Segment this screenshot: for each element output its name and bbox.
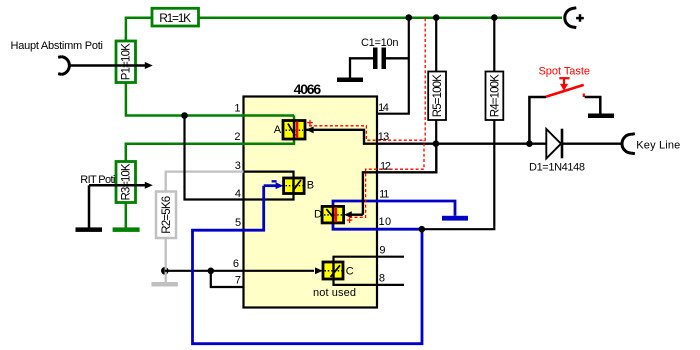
wire pin1 into switch A top (green)	[293, 116, 296, 122]
switch A (closed, red)	[283, 121, 305, 140]
label pin 8	[379, 273, 385, 285]
wire switch D input arrow	[344, 211, 363, 218]
svg-text:Key Line: Key Line	[636, 139, 680, 151]
wire R2 bottom (gray)	[165, 238, 167, 283]
label Haupt Abstimm Poti	[11, 40, 104, 52]
node pin10/R4 junction	[419, 226, 426, 233]
wire switch B input arrow (blue)	[264, 182, 284, 189]
wire pin 5 (blue)	[193, 186, 423, 344]
svg-text:Spot Taste: Spot Taste	[539, 66, 591, 78]
node junction pin4/pin1	[181, 112, 188, 119]
wire RIT wiper to ground	[88, 185, 91, 227]
label pin 6	[233, 258, 239, 270]
resistor R5	[428, 72, 446, 121]
wire R2 top to pin 3 (gray)	[166, 172, 244, 192]
wire R5 bottom	[435, 120, 437, 144]
svg-text:4: 4	[235, 188, 241, 200]
svg-text:9: 9	[379, 245, 385, 257]
node pin13/spot junction	[526, 140, 533, 147]
wire pin 12	[363, 144, 436, 215]
potentiometer P1	[116, 41, 136, 83]
label pin 11	[379, 189, 389, 201]
wire pin 14	[377, 18, 409, 114]
label pin 7	[235, 275, 241, 287]
label C1=10n	[361, 37, 399, 49]
label switch D	[314, 208, 322, 220]
node rail/R4 junction	[491, 14, 498, 21]
label pin 10	[379, 216, 392, 228]
ground C1 (black bar)	[337, 78, 363, 83]
wire pin 7	[211, 271, 244, 287]
svg-text:C: C	[346, 265, 354, 277]
label pin 4	[235, 188, 241, 200]
wire pin 10 (blue)	[333, 223, 422, 229]
switch S1 Spot Taste (red pushbutton)	[546, 78, 584, 97]
resistor R2	[156, 192, 176, 239]
wire pin 6 to switch C	[165, 270, 314, 272]
svg-text:2: 2	[234, 131, 240, 143]
svg-text:5: 5	[235, 217, 241, 229]
wire R3 wiper arrow	[89, 182, 153, 189]
label D1=1N4148	[529, 162, 585, 174]
label not used	[313, 287, 356, 299]
svg-text:4066: 4066	[294, 81, 322, 97]
diode D1	[546, 129, 562, 159]
wire pin 2 from R3 into switch A bottom (green)	[126, 138, 294, 162]
svg-text:R3=10K: R3=10K	[121, 163, 133, 200]
wire pin 3 into switch B top	[244, 172, 294, 179]
label pin 14	[378, 102, 389, 114]
switch D (closed, red)	[322, 206, 344, 223]
svg-text:13: 13	[378, 131, 390, 143]
ground RIT (black bar)	[76, 227, 103, 232]
svg-text:R4=100K: R4=100K	[489, 74, 501, 117]
wire V+ green rail	[126, 18, 562, 42]
wire R5 top	[435, 18, 437, 72]
wire switch C input arrow	[315, 267, 323, 274]
potentiometer R3	[116, 162, 136, 203]
IC U1 label 4066	[294, 81, 322, 97]
svg-text:14: 14	[378, 102, 389, 114]
node pin6/pin7 junction	[208, 268, 215, 275]
ground pin11 (blue bar)	[442, 216, 468, 221]
svg-text:+: +	[307, 117, 313, 129]
svg-text:3: 3	[235, 160, 241, 172]
capacitor C1 leads	[350, 58, 409, 77]
label Key Line	[636, 139, 680, 151]
wire red dashed DC path A	[309, 18, 425, 140]
svg-text:1: 1	[234, 103, 240, 115]
svg-text:P1=10K: P1=10K	[121, 43, 133, 80]
label plus at switch A (red)	[307, 117, 313, 129]
node rail/pin14 junction	[406, 14, 413, 21]
label pin 9	[379, 245, 385, 257]
IC U1 4066 body	[244, 97, 378, 308]
wire pin 11 (blue)	[333, 201, 455, 216]
wire spot taste right leg	[585, 97, 601, 114]
wire switch A output to pin 13 and Key Line	[306, 126, 622, 143]
resistor R4	[486, 72, 504, 121]
node pin13/R5 junction	[433, 140, 440, 147]
svg-text:Haupt Abstimm Poti: Haupt Abstimm Poti	[11, 40, 104, 52]
svg-text:8: 8	[379, 273, 385, 285]
wire red dashed DC path D	[349, 140, 424, 217]
svg-text:10: 10	[379, 216, 392, 228]
label plus at switch D (red)	[346, 215, 352, 227]
wire pin10 junction to R4	[422, 120, 495, 229]
wire R4 top	[493, 18, 495, 72]
svg-text:C1=10n: C1=10n	[361, 37, 399, 49]
svg-text:R5=100K: R5=100K	[432, 74, 444, 117]
wire R3 bottom (green)	[125, 203, 128, 228]
capacitor C1 plates	[373, 48, 386, 70]
resistor R1	[152, 8, 199, 26]
node R2/pin6 junction	[161, 267, 169, 275]
label pin 5	[235, 217, 241, 229]
node rail/R5 junction	[433, 14, 440, 21]
svg-text:not used: not used	[313, 287, 356, 299]
svg-text:R2=5K6: R2=5K6	[161, 196, 173, 234]
ground spot taste (black bar)	[588, 114, 614, 119]
wire pin 9 to switch C top	[334, 257, 405, 263]
wire pin 4	[185, 116, 294, 200]
svg-text:B: B	[307, 179, 314, 191]
label switch A	[274, 124, 282, 136]
svg-text:R1=1K: R1=1K	[159, 11, 191, 25]
connector Key Line arc	[622, 134, 635, 154]
wire spot taste left leg	[529, 97, 546, 144]
svg-text:A: A	[274, 124, 282, 136]
label pin 12	[380, 160, 391, 172]
label pin 2	[234, 131, 240, 143]
switch B (open)	[284, 178, 305, 194]
connector Haupt poti arc	[58, 57, 69, 75]
label switch C	[346, 265, 354, 277]
label minus at switch B	[272, 180, 277, 182]
svg-text:11: 11	[379, 189, 389, 201]
svg-text:6: 6	[233, 258, 239, 270]
label RIT Poti	[80, 174, 115, 186]
svg-text:12: 12	[380, 160, 391, 172]
svg-text:D: D	[314, 208, 322, 220]
wire P1 wiper arrow	[70, 62, 153, 69]
label switch B	[307, 179, 314, 191]
label Spot Taste	[539, 66, 591, 78]
svg-text:7: 7	[235, 275, 241, 287]
label pin 13	[378, 131, 390, 143]
wire P1 to pin 1 (green)	[126, 83, 294, 116]
wire pin 8 to switch C bottom	[334, 279, 405, 285]
ground R3 (green bar)	[113, 227, 140, 232]
label pin 3	[235, 160, 241, 172]
switch C (open, not used)	[323, 262, 343, 279]
label pin 1	[234, 103, 240, 115]
ground R2 (gray bar)	[151, 282, 178, 287]
svg-text:D1=1N4148: D1=1N4148	[529, 162, 585, 174]
connector V+ terminal	[565, 8, 584, 28]
